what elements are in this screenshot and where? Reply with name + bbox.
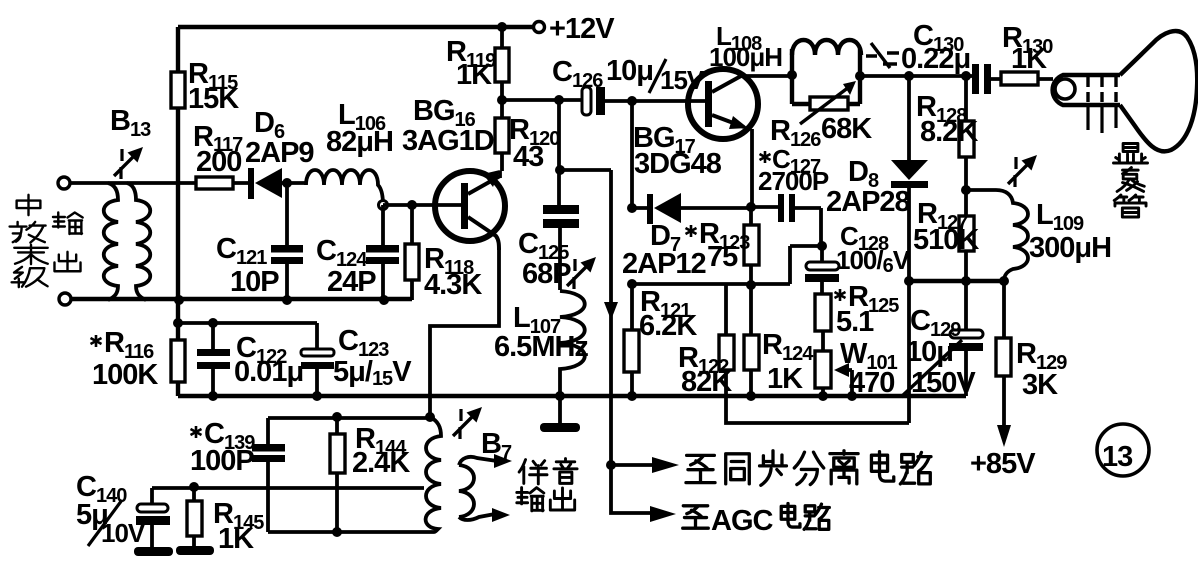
svg-text:510K: 510K — [913, 224, 979, 256]
svg-text:300μH: 300μH — [1029, 232, 1111, 264]
adjust arrow L109 — [1008, 155, 1037, 187]
resistor R127 — [964, 190, 968, 281]
wire R119 node to C126 — [502, 98, 582, 102]
wire C125 branch — [559, 100, 611, 170]
svg-text:R116: R116 — [104, 327, 154, 363]
node L106/C124 — [379, 201, 388, 210]
wire left vertical bus x=178 — [176, 27, 180, 396]
ground C140 — [134, 547, 173, 556]
svg-text:B7: B7 — [481, 428, 512, 464]
capacitor C129 — [964, 281, 968, 396]
wire D6 to node — [282, 181, 306, 185]
wire BG17 emitter down — [750, 129, 754, 207]
svg-text:L109: L109 — [1036, 199, 1084, 235]
node base BG17 — [627, 96, 637, 106]
CRT cathode circle — [1055, 79, 1075, 99]
svg-text:2AP12: 2AP12 — [622, 248, 706, 280]
svg-text:100/6V: 100/6V — [836, 245, 911, 277]
capacitor C124 — [381, 205, 385, 300]
transformer B13 right winding — [127, 183, 150, 300]
svg-text:3DG48: 3DG48 — [634, 148, 722, 180]
transistor BG17 — [688, 69, 758, 139]
svg-text:150V: 150V — [911, 367, 976, 399]
node sync takeoff — [606, 460, 616, 470]
node R119/R120 — [497, 95, 507, 105]
svg-text:+12V: +12V — [549, 13, 615, 45]
resistor R144 — [335, 418, 339, 532]
wire node down to D7 — [630, 101, 634, 208]
label 至AGC电路 — [683, 506, 709, 528]
capacitor C126 — [582, 87, 591, 115]
svg-text:68P: 68P — [522, 258, 571, 290]
resistor R129 — [1002, 281, 1006, 426]
tank right vertical — [858, 49, 862, 104]
resistor R126 — [792, 102, 860, 106]
capacitor C121 — [285, 183, 289, 300]
svg-text:6.5MHz: 6.5MHz — [494, 331, 588, 363]
capacitor C125 — [559, 170, 560, 290]
wire lower loop — [726, 396, 909, 423]
svg-text:5.1: 5.1 — [836, 306, 874, 338]
adjust arrow B13 — [114, 147, 143, 179]
svg-text:C126: C126 — [552, 56, 603, 92]
circled 13 — [1097, 424, 1149, 476]
capacitor C123 — [315, 323, 319, 396]
svg-text:43: 43 — [513, 141, 544, 173]
node at R119 top — [497, 22, 507, 32]
resistor R145 — [192, 487, 196, 547]
wire R117 to D6 — [233, 181, 250, 185]
capacitor C139 — [266, 418, 270, 532]
wire y=285 bias row — [632, 246, 822, 284]
wire rail y=323 — [178, 321, 317, 325]
svg-text:68K: 68K — [821, 113, 872, 145]
wire top +12V rail — [178, 25, 533, 29]
svg-text:10V: 10V — [101, 518, 146, 548]
CRT picture tube — [1053, 31, 1198, 151]
node R128 bottom — [961, 185, 971, 195]
node base/R118 — [407, 200, 417, 210]
wire detector input y=183 — [70, 181, 196, 185]
svg-text:3AG1D: 3AG1D — [402, 125, 494, 157]
node L107 ground — [555, 391, 565, 401]
svg-text:2AP9: 2AP9 — [245, 137, 314, 169]
wire arrow to AGC — [611, 465, 650, 513]
svg-text:8.2K: 8.2K — [920, 116, 978, 148]
wire arrow to sync separator — [611, 463, 655, 467]
svg-text:6.2K: 6.2K — [639, 310, 697, 342]
svg-text:10μ: 10μ — [606, 55, 653, 87]
label CRT 显象管 — [1113, 144, 1147, 164]
inductor L107 — [560, 291, 585, 396]
svg-text:200: 200 — [196, 146, 241, 178]
capacitor C140 — [150, 488, 154, 548]
svg-text:0.22μ: 0.22μ — [901, 43, 970, 75]
svg-text:75: 75 — [707, 241, 738, 273]
node tank right — [855, 71, 865, 81]
svg-text:AGC: AGC — [711, 505, 774, 537]
diode D8 — [907, 76, 911, 281]
wire sync takeoff vertical — [609, 170, 613, 465]
wire tank to C130 — [860, 74, 973, 78]
label 至同步分离电路 — [686, 455, 715, 482]
svg-text:2AP28: 2AP28 — [826, 186, 911, 218]
svg-text:13: 13 — [1102, 441, 1133, 473]
label 伴音 输出 — [519, 460, 547, 484]
resistor R122 — [724, 285, 728, 396]
ground — [558, 396, 562, 424]
wire rail y=281 right — [909, 279, 1004, 283]
wire rail y=300 B13 bottom — [71, 297, 412, 301]
resistor R124 — [749, 285, 753, 397]
capacitor C122 — [211, 323, 215, 396]
terminal IF input top — [58, 177, 70, 189]
svg-text:82μH: 82μH — [326, 126, 393, 158]
adjust arrow B7 — [453, 407, 482, 439]
svg-text:C121: C121 — [216, 233, 267, 269]
resistor R120 — [500, 100, 502, 178]
wire BG17 collector to tank — [741, 74, 792, 78]
CRT leads — [1088, 105, 1116, 133]
resistor R130 — [991, 77, 1053, 81]
resistor R125 — [815, 294, 831, 331]
resistor R116 — [171, 340, 185, 382]
resistor R118 — [410, 205, 414, 300]
resistor R117 — [196, 177, 233, 189]
svg-text:1K: 1K — [1011, 43, 1047, 75]
transformer B7 secondary — [459, 465, 474, 517]
capacitor C130 — [972, 64, 979, 94]
svg-text:24P: 24P — [327, 266, 376, 298]
capacitor C127 — [752, 207, 821, 246]
arrowhead down on sync wire — [604, 302, 618, 320]
capacitor C128 — [820, 246, 824, 294]
wire C126 to BG17 base — [605, 99, 706, 103]
adjust arrow L107 — [567, 257, 596, 289]
svg-text:1K: 1K — [456, 59, 492, 91]
resistor R121 — [630, 284, 634, 396]
transistor BG16 — [435, 171, 505, 241]
arrow to +85V — [997, 425, 1011, 447]
svg-text:100K: 100K — [92, 359, 158, 391]
core adjust symbol — [866, 43, 899, 68]
resistor R119 — [500, 27, 504, 100]
resistor R115 — [171, 72, 185, 108]
terminal IF input bottom — [59, 293, 71, 305]
wire B7 bottom rail — [268, 530, 434, 534]
inductor L106 — [306, 170, 383, 205]
svg-text:15K: 15K — [188, 83, 239, 115]
transformer B7 primary — [426, 417, 441, 532]
tank left vertical — [790, 49, 794, 104]
label 输出 left — [53, 213, 83, 235]
wire base BG16 — [383, 203, 462, 207]
svg-text:3K: 3K — [1022, 369, 1058, 401]
svg-text:B13: B13 — [110, 105, 151, 141]
wire BG16 collector to B7 — [430, 248, 499, 417]
wire tap to R145 — [152, 486, 424, 490]
diode D6 — [248, 168, 254, 199]
transformer B13 left winding — [104, 183, 118, 300]
arrow through R126 — [800, 87, 849, 124]
node dots rail y=300 — [174, 295, 184, 305]
svg-text:5μ/15V: 5μ/15V — [333, 356, 412, 390]
node detector output — [282, 178, 292, 188]
svg-text:10μ: 10μ — [906, 336, 953, 368]
svg-text:100P: 100P — [190, 445, 254, 477]
node C125 takeoff — [554, 95, 564, 105]
inductor L108 tank coil — [792, 40, 861, 55]
CRT grid dashes — [1088, 77, 1116, 102]
wire right return vertical — [907, 281, 911, 423]
svg-text:100μH: 100μH — [709, 42, 782, 72]
secondary top lead — [459, 457, 497, 465]
terminal +12V — [534, 22, 545, 33]
wire B7 top row — [268, 416, 430, 420]
svg-text:4.3K: 4.3K — [424, 269, 482, 301]
potentiometer W101 — [815, 351, 831, 388]
svg-text:+85V: +85V — [970, 448, 1036, 480]
svg-text:2700P: 2700P — [758, 166, 829, 196]
svg-text:2.4K: 2.4K — [352, 447, 410, 479]
svg-text:82K: 82K — [681, 366, 732, 398]
ground R145 — [176, 546, 214, 555]
resistor R128 — [964, 76, 968, 190]
svg-text:1K: 1K — [218, 523, 254, 555]
svg-text:10P: 10P — [230, 266, 279, 298]
node tank left — [787, 70, 797, 80]
svg-text:0.01μ: 0.01μ — [234, 356, 303, 388]
inductor L109 — [966, 190, 1028, 281]
diode D7 — [632, 206, 650, 210]
resistor R123 — [749, 207, 753, 285]
label 中放末级 — [17, 195, 41, 215]
svg-text:1K: 1K — [767, 363, 803, 395]
wire ground rail y=396 — [178, 394, 966, 398]
svg-text:R124: R124 — [762, 329, 814, 365]
secondary bottom lead — [459, 514, 495, 520]
